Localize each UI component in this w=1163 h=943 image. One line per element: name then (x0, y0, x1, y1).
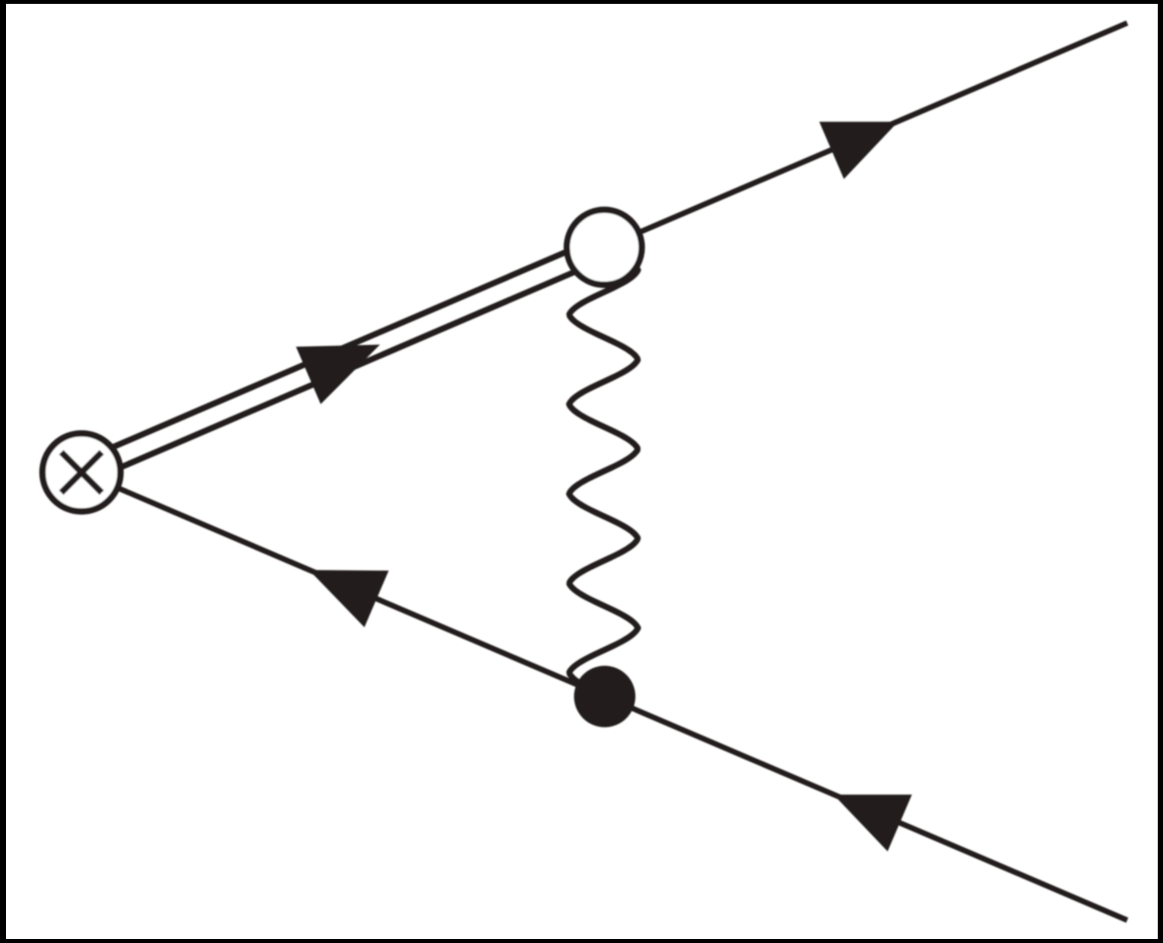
fermion line: circled-cross to bottom-right corner through blob (82, 472, 1128, 920)
photon (wavy) line between upper vertex and lower blob (569, 250, 638, 690)
fermion line: upper vertex to top-right corner (604, 23, 1127, 247)
arrow on lower-left fermion line (points to circled-cross) (309, 570, 389, 627)
lower effective vertex: filled blob (574, 666, 635, 727)
double line lower stroke (82, 259, 605, 484)
arrow on double line (points to upper vertex) (296, 345, 380, 405)
arrow on upper-right fermion line (points outward) (819, 122, 898, 179)
arrow on lower-right fermion line (points to blob) (834, 795, 912, 852)
upper interaction vertex: open circle (567, 210, 642, 285)
double line: heavy-particle propagator from circled-cross to upper vertex, upper stroke (82, 236, 605, 461)
operator insertion vertex: circled cross (43, 433, 121, 511)
